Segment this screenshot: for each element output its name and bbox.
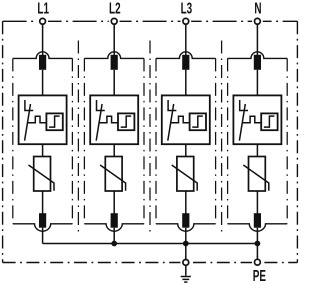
module L2 enclosure left edge (dash-dot) [83,58,85,223]
wire L2 varistor to bottom terminal [113,191,115,214]
spark gap F4 electrode post [240,100,248,111]
module L1 enclosure top edge with wire bushing [13,52,73,59]
wire L2 drop from terminal circle [113,24,115,55]
wire L2 spark gap to varistor [113,144,115,156]
spark gap F2 trigger unit step symbol [121,116,132,127]
terminal X22 (bottom, filled) [111,213,118,228]
spark gap F1 electrode post [25,100,33,111]
wire N drop from terminal circle [256,24,258,55]
spark gap F3 electrode post [168,100,176,111]
terminal X41 (top, filled) [254,55,261,70]
module L1 enclosure right edge (dash-dot) [71,58,73,223]
varistor R1 diagonal stroke [29,165,55,191]
outer device boundary bottom edge (dash-dot) [3,262,298,264]
spark gap F1 trigger unit box [46,113,62,130]
varistor R3 body [177,157,194,192]
wire L1 bottom terminal to PE bus [42,228,44,244]
spark gap F3 trigger unit box [190,113,206,130]
node PE terminal circle [252,256,263,268]
node L3 terminal circle [180,16,191,28]
wire L1 spark gap to varistor [42,144,44,156]
wire N bottom terminal to PE bus [256,228,258,244]
module L1 enclosure bottom edge with wire bushing [13,224,73,231]
spark gap F1 trigger pulse line [27,116,46,123]
terminal X11 (top, filled) [39,55,46,70]
spark gap F1 trigger unit step symbol [49,116,60,127]
wire L3 spark gap to varistor [185,144,187,156]
wire N terminal to spark gap [256,70,258,96]
outer device boundary left edge (dash-dot) [2,21,4,262]
module L3 enclosure top edge with wire bushing [156,52,216,59]
spark gap F4 switch blade [239,104,245,141]
svg-text:L3: L3 [181,0,193,17]
wire L1 terminal to spark gap [42,70,44,96]
spark gap F2 trigger pulse line [99,116,118,123]
varistor R3 diagonal stroke [172,165,198,191]
spark gap F3 (triggered spark gap) outer box [162,95,210,144]
node N terminal circle [252,16,263,28]
svg-text:L2: L2 [109,0,121,17]
node L2 terminal circle [109,16,120,28]
varistor R1 body [34,157,51,192]
terminal X12 (bottom, filled) [39,213,46,228]
outer device boundary top edge (dash-dot) [3,20,298,22]
outer device boundary right edge (dash-dot) [296,21,298,262]
module L3 enclosure left edge (dash-dot) [155,58,157,223]
spark gap F3 switch blade [168,104,174,141]
varistor R2 diagonal stroke [100,165,126,191]
spark gap F2 (triggered spark gap) outer box [90,95,138,144]
wire PE bus [43,243,258,245]
wire L1 varistor to bottom terminal [42,191,44,214]
varistor R2 body [105,157,122,192]
spark gap F4 trigger unit box [261,113,277,130]
module L2 enclosure right edge (dash-dot) [143,58,145,223]
wire L3 varistor to bottom terminal [185,191,187,214]
ground symbol [181,266,191,282]
module separator chain line 1 [77,41,79,233]
spark gap F1 switch blade [25,104,31,141]
module L3 enclosure bottom edge with wire bushing [156,224,216,231]
module L2 enclosure bottom edge with wire bushing [84,224,144,231]
varistor R4 diagonal stroke [243,165,268,191]
spark gap F2 trigger unit box [118,113,134,130]
spark gap F3 trigger unit step symbol [192,116,203,127]
wire L3 drop from terminal circle [185,24,187,55]
wire bus to PE terminal [256,244,258,260]
wire L1 drop from terminal circle [42,24,44,55]
spark gap F4 trigger pulse line [242,116,261,123]
wire L2 terminal to spark gap [113,70,115,96]
spark gap F2 electrode post [97,100,105,111]
terminal X31 (top, filled) [182,55,189,70]
module N enclosure top edge with wire bushing [228,52,288,59]
spark gap F4 trigger unit step symbol [264,116,275,127]
module N enclosure bottom edge with wire bushing [228,224,288,231]
module L3 enclosure right edge (dash-dot) [215,58,217,223]
junction node N/PE bus [255,241,261,247]
wire L2 bottom terminal to PE bus [113,228,115,244]
node L1 terminal circle [37,16,48,28]
spark gap F1 (triggered spark gap) outer box [19,95,67,144]
module separator chain line 3 [221,41,223,233]
spark gap F2 switch blade [96,104,102,141]
terminal X32 (bottom, filled) [182,213,189,228]
module separator chain line 2 [149,41,151,233]
spark gap F4 (triggered spark gap) outer box [233,95,281,144]
terminal X42 (bottom, filled) [254,213,261,228]
module L1 enclosure left edge (dash-dot) [12,58,14,223]
module N enclosure right edge (dash-dot) [286,58,288,223]
varistor R4 body [249,157,266,192]
wire N varistor to bottom terminal [256,191,258,214]
wire L3 terminal to spark gap [185,70,187,96]
node earth terminal circle [180,256,191,268]
module N enclosure left edge (dash-dot) [227,58,229,223]
spark gap F3 trigger pulse line [171,116,190,123]
svg-text:PE: PE [253,267,266,285]
wire N spark gap to varistor [256,144,258,156]
wire L3 bottom terminal to PE bus [185,228,187,244]
junction node L2/PE bus [111,241,117,247]
wire bus to earth terminal [185,244,187,260]
svg-text:N: N [254,0,261,17]
svg-text:L1: L1 [37,0,49,17]
module L2 enclosure top edge with wire bushing [84,52,144,59]
terminal X21 (top, filled) [111,55,118,70]
junction node L3/PE bus [183,241,189,247]
